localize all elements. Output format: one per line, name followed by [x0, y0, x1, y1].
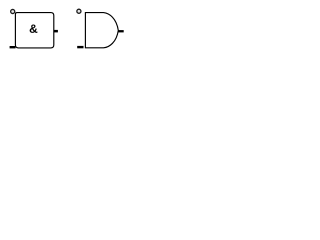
U2 input pin circle (top-left): [77, 9, 81, 13]
U2 output pin stub: [118, 30, 123, 32]
U2 body: [85, 13, 118, 48]
U1 label &: [30, 24, 38, 32]
U1 input pin circle (top-left): [11, 9, 15, 13]
U1 output pin stub: [54, 30, 58, 33]
U1 body: [15, 13, 53, 48]
U1 input pin stub (bottom-left): [10, 46, 16, 48]
U2 input pin stub (bottom-left): [77, 46, 83, 48]
